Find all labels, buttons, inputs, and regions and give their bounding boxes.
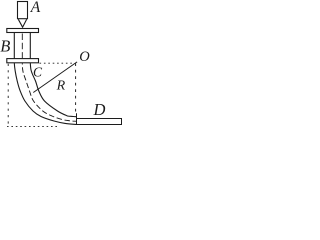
flange F1 (upper)	[7, 29, 39, 33]
svg-text:D: D	[93, 100, 106, 119]
flange F2 (lower)	[7, 59, 39, 63]
control volume dashed: bottom horizontal	[7, 126, 58, 128]
control volume dashed: left vertical	[7, 64, 9, 128]
radius line R from O	[33, 62, 77, 93]
svg-text:B: B	[0, 37, 10, 56]
nozzle jet body	[18, 2, 28, 19]
outlet pipe left end tick	[76, 113, 78, 118]
svg-text:A: A	[30, 0, 41, 16]
pipe wall left	[13, 33, 15, 59]
construction dashed: top horizontal to O	[40, 62, 75, 64]
nozzle jet tip	[18, 19, 26, 27]
svg-text:R: R	[56, 79, 66, 94]
construction dashed: vertical from O	[75, 63, 77, 112]
svg-text:C: C	[33, 65, 43, 80]
pipe wall right	[29, 33, 31, 59]
bend centerline (dashed)	[22, 63, 76, 121]
bend outer wall	[14, 63, 76, 125]
svg-text:O: O	[79, 49, 90, 65]
pipe centerline	[21, 34, 23, 59]
outlet pipe D body	[77, 119, 122, 125]
bend inner wall	[30, 63, 76, 117]
